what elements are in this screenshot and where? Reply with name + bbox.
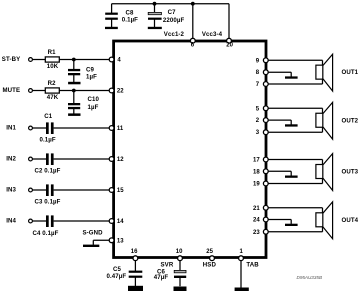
svg-text:22: 22 — [117, 89, 124, 95]
node junction MUTE / C10 — [72, 89, 76, 93]
svg-text:19: 19 — [253, 182, 260, 188]
svg-text:12: 12 — [117, 157, 124, 163]
pin 22 — [109, 88, 124, 95]
capacitor C9 — [68, 67, 97, 81]
pin 17 — [253, 157, 268, 163]
svg-text:47µF: 47µF — [154, 274, 169, 281]
net Vcc3-4 — [202, 31, 223, 38]
wire IN4 to C4 — [32, 220, 46, 222]
net Vcc1-2 — [164, 31, 185, 38]
ground (S-GND) — [83, 245, 99, 247]
svg-text:C1: C1 — [44, 113, 53, 120]
pin 18 — [253, 169, 268, 175]
ground (TAB) — [235, 288, 249, 291]
pin 4 — [109, 57, 121, 64]
wire pin 23 to speaker OUT4 — [268, 231, 322, 233]
pin 24 — [253, 217, 268, 223]
svg-text:13: 13 — [117, 238, 124, 244]
wire pin 21 to speaker OUT4 — [268, 207, 322, 209]
wire to pin 20 — [228, 4, 230, 41]
svg-text:0.1µF: 0.1µF — [40, 136, 56, 143]
wire speaker OUT1 connector — [322, 60, 324, 84]
wire pin 19 to speaker OUT3 — [268, 183, 322, 185]
svg-text:0.47µF: 0.47µF — [107, 273, 127, 280]
wire C4 to pin 14 — [54, 220, 110, 222]
terminal MUTE — [3, 87, 33, 94]
svg-text:IN4: IN4 — [6, 217, 16, 224]
wire IN1 to C1 — [32, 127, 46, 129]
svg-text:OUT2: OUT2 — [342, 117, 359, 124]
pin 23 — [253, 229, 268, 235]
resistor R1 — [45, 49, 59, 70]
drawing code D95AU335B — [297, 275, 323, 280]
speaker OUT2 — [316, 102, 359, 139]
wire R1 to pin 4 — [59, 59, 109, 61]
svg-text:HSD: HSD — [203, 262, 217, 269]
wire pin 24 to ground — [268, 220, 291, 224]
svg-text:17: 17 — [253, 158, 260, 164]
capacitor C10 — [68, 96, 99, 111]
capacitor C8 — [105, 9, 138, 23]
pin 10 — [176, 249, 183, 260]
svg-text:16: 16 — [131, 249, 138, 255]
wire IN3 to C3 — [32, 189, 46, 191]
capacitor C7 (electrolytic, + plate grey) — [148, 9, 184, 24]
capacitor C2 — [35, 153, 61, 174]
svg-text:Vcc3-4: Vcc3-4 — [202, 31, 223, 38]
svg-text:S-GND: S-GND — [83, 230, 104, 237]
svg-text:0.1µF: 0.1µF — [122, 17, 138, 24]
speaker OUT4 — [316, 202, 359, 239]
pin 8 — [256, 70, 268, 76]
wire C2 to pin 12 — [54, 158, 110, 160]
wire C3 to pin 15 — [54, 189, 110, 191]
svg-text:23: 23 — [253, 230, 260, 236]
pin 5 — [256, 106, 268, 112]
svg-text:C3 0.1µF: C3 0.1µF — [35, 199, 61, 206]
capacitor C5 — [107, 266, 143, 280]
capacitor C3 — [35, 184, 61, 205]
svg-text:D95AU335B: D95AU335B — [297, 275, 323, 280]
svg-text:15: 15 — [117, 188, 124, 194]
wire speaker OUT4 connector — [322, 208, 324, 232]
ground (OUT1) — [285, 76, 298, 78]
pin 15 — [109, 188, 124, 194]
svg-text:IN3: IN3 — [6, 186, 16, 193]
wire pin 2 to ground — [268, 120, 291, 124]
pin 14 — [109, 219, 124, 225]
wire TAB to ground — [240, 261, 242, 288]
svg-text:10: 10 — [176, 249, 183, 255]
capacitor C6 (electrolytic, + plate grey) — [154, 262, 186, 282]
svg-text:2200µF: 2200µF — [163, 17, 185, 24]
wire pin 7 to speaker OUT1 — [268, 83, 322, 85]
svg-text:18: 18 — [253, 169, 260, 175]
svg-text:10K: 10K — [47, 63, 59, 70]
wire ST-BY to R1 — [32, 59, 45, 61]
svg-text:R2: R2 — [48, 80, 57, 87]
svg-text:R1: R1 — [48, 49, 57, 56]
ground (C8) — [105, 27, 118, 29]
svg-text:21: 21 — [253, 206, 260, 212]
svg-text:47K: 47K — [47, 94, 59, 101]
pin 21 — [253, 205, 268, 211]
svg-text:MUTE: MUTE — [3, 87, 21, 94]
node junction top rail to pin 6 — [191, 2, 195, 6]
wire MUTE to R2 — [32, 90, 45, 92]
wire pin 8 to ground — [268, 72, 291, 76]
svg-text:C5: C5 — [113, 266, 122, 273]
svg-text:C7: C7 — [168, 9, 177, 16]
pin 6 — [190, 38, 195, 48]
ground (C7) — [148, 27, 162, 29]
pin 20 — [226, 38, 233, 48]
wire to pin 6 — [192, 4, 194, 41]
svg-text:C4 0.1µF: C4 0.1µF — [33, 230, 59, 237]
pin 9 — [256, 58, 268, 64]
IC U1 body — [114, 41, 266, 258]
node junction ST-BY / C9 — [72, 58, 76, 62]
terminal IN3 — [6, 186, 32, 193]
wire C8 lead — [111, 4, 113, 28]
pin 11 — [109, 126, 124, 132]
wire speaker OUT3 connector — [322, 160, 324, 184]
wire pin 3 to speaker OUT2 — [268, 131, 322, 133]
ground (C5) — [128, 286, 143, 291]
pin 25 HSD — [203, 249, 217, 268]
wire pin 13 to ground — [93, 240, 109, 245]
wire R2 to pin 22 — [59, 90, 109, 92]
wire C10 lead — [73, 91, 75, 114]
terminal IN2 — [6, 155, 32, 162]
ground (C9) — [68, 82, 80, 85]
pin 7 — [256, 82, 268, 88]
net S-GND — [83, 230, 104, 237]
ground (OUT2) — [285, 124, 298, 126]
svg-text:14: 14 — [117, 219, 124, 225]
pin 2 — [256, 118, 268, 124]
wire pin 18 to ground — [268, 171, 291, 175]
capacitor C4 — [33, 215, 59, 236]
ground (OUT3) — [285, 176, 298, 178]
svg-text:OUT3: OUT3 — [342, 169, 359, 176]
svg-text:1µF: 1µF — [88, 104, 99, 111]
wire C5 lead — [134, 261, 136, 287]
wire C1 to pin 11 — [54, 127, 110, 129]
terminal ST-BY — [2, 56, 33, 63]
svg-text:Vcc1-2: Vcc1-2 — [164, 31, 185, 38]
ground (C6) — [174, 287, 187, 291]
svg-text:OUT1: OUT1 — [342, 69, 359, 76]
wire IN2 to C2 — [32, 158, 46, 160]
wire C9 lead — [73, 60, 75, 83]
pin 12 — [109, 157, 124, 163]
pin 19 — [253, 181, 268, 187]
terminal IN4 — [6, 217, 32, 224]
svg-text:C10: C10 — [88, 96, 100, 103]
resistor R2 — [45, 80, 59, 101]
capacitor C1 — [40, 113, 56, 143]
svg-text:IN2: IN2 — [6, 155, 16, 162]
node junction top rail / C7 — [153, 2, 157, 6]
svg-text:C2 0.1µF: C2 0.1µF — [35, 168, 61, 175]
svg-text:25: 25 — [206, 249, 213, 255]
terminal IN1 — [6, 124, 32, 131]
speaker OUT1 — [316, 54, 359, 91]
wire pin 9 to speaker OUT1 — [268, 59, 322, 61]
svg-text:1µF: 1µF — [86, 73, 97, 80]
svg-text:OUT4: OUT4 — [342, 217, 359, 224]
svg-text:C8: C8 — [126, 9, 135, 16]
svg-text:11: 11 — [117, 126, 124, 132]
pin 13 — [109, 238, 124, 244]
svg-text:20: 20 — [226, 42, 233, 48]
wire pin 5 to speaker OUT2 — [268, 107, 322, 109]
svg-text:IN1: IN1 — [6, 124, 16, 131]
speaker OUT3 — [316, 154, 359, 191]
wire pin 17 to speaker OUT3 — [268, 159, 322, 161]
svg-text:24: 24 — [253, 218, 260, 224]
svg-text:ST-BY: ST-BY — [2, 56, 20, 63]
ground (C10) — [68, 113, 80, 116]
pin 1 TAB — [239, 249, 260, 268]
pin 3 — [256, 130, 268, 136]
svg-text:TAB: TAB — [246, 262, 259, 269]
ground (OUT4) — [285, 224, 298, 226]
wire C6 lead — [179, 261, 181, 287]
pin 16 — [131, 249, 138, 260]
wire C7 lead — [154, 4, 156, 28]
wire top supply rail — [112, 3, 229, 5]
wire speaker OUT2 connector — [322, 108, 324, 132]
